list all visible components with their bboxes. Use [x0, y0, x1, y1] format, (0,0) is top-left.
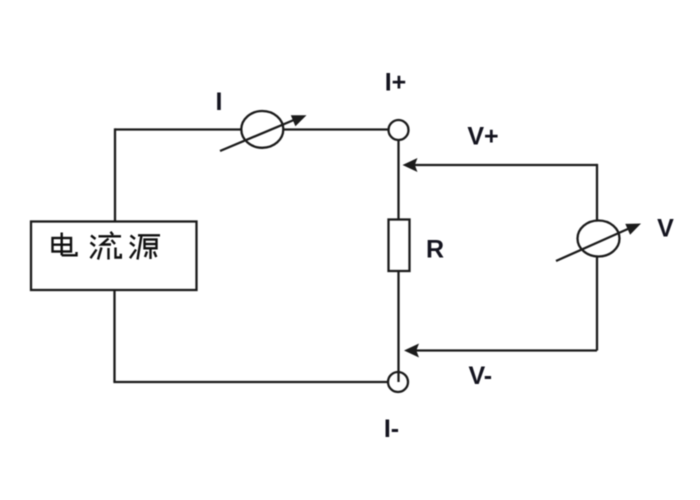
- wire V- sense horizontal: [416, 349, 598, 351]
- ammeter needle arrow line: [220, 120, 295, 152]
- wire middle vertical upper (I+ terminal to resistor): [397, 140, 399, 220]
- hanzi 流: [91, 232, 122, 260]
- svg-text:V+: V+: [467, 123, 498, 151]
- svg-text:I: I: [216, 88, 223, 116]
- V+ arrowhead (points left at node below I+): [403, 158, 418, 172]
- ammeter circle (meter on top wire): [241, 111, 283, 148]
- voltmeter needle arrow line: [556, 228, 630, 261]
- svg-text:V: V: [657, 215, 674, 243]
- terminal I+ (open circle): [389, 120, 409, 140]
- wire left vertical top (corner to current source box): [114, 128, 116, 221]
- wire V+ sense horizontal: [414, 164, 597, 166]
- svg-text:I+: I+: [385, 69, 407, 97]
- svg-text:V-: V-: [468, 362, 492, 390]
- hanzi 源: [130, 235, 160, 259]
- terminal I- (open circle): [388, 372, 408, 392]
- wire right vertical (voltmeter branch): [596, 164, 598, 351]
- hanzi 电: [53, 233, 77, 256]
- svg-text:R: R: [426, 236, 444, 264]
- wire middle vertical lower (resistor to I- terminal center): [397, 271, 399, 382]
- current source box: [31, 222, 197, 291]
- wire bottom horizontal to I- terminal: [113, 381, 388, 383]
- svg-text:I-: I-: [384, 415, 399, 443]
- voltmeter circle (meter on right branch): [578, 221, 620, 257]
- wire left vertical bottom (box to bottom wire): [113, 290, 115, 382]
- wire top horizontal from left corner to I+ terminal: [115, 128, 389, 130]
- resistor R body: [389, 220, 410, 272]
- current source label 电流源 (drawn as strokes): [53, 232, 161, 260]
- ammeter arrowhead: [291, 115, 307, 126]
- voltmeter arrowhead: [625, 224, 641, 235]
- V- arrowhead (points left at node above I-): [404, 344, 419, 358]
